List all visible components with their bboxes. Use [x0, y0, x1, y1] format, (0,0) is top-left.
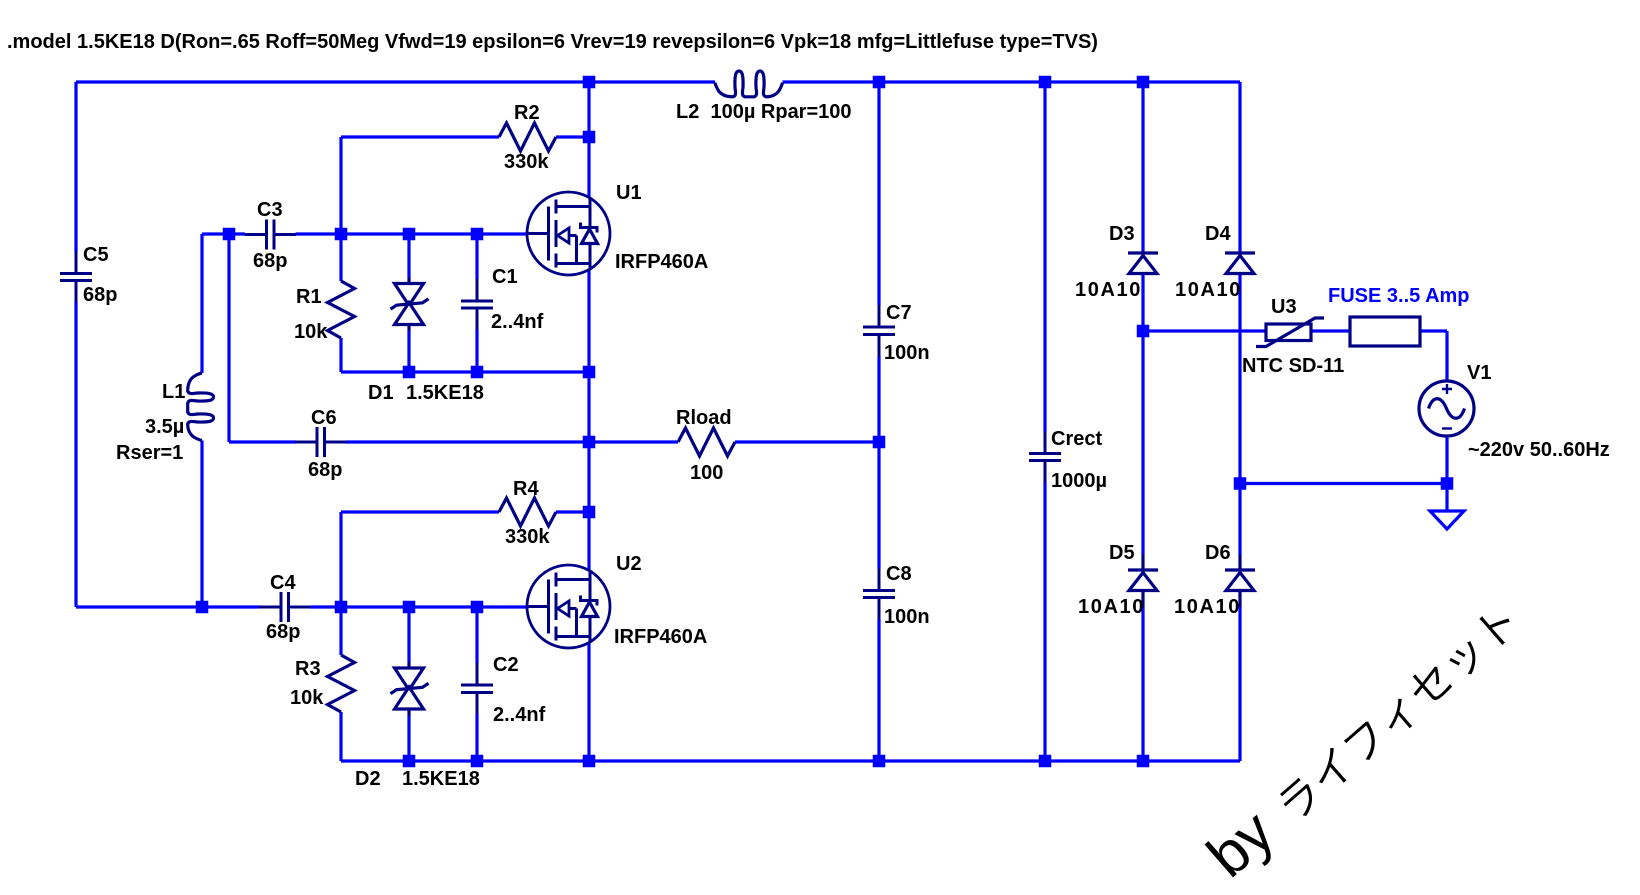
wire R4 left drop [339, 512, 342, 607]
node gate row/R1 [335, 228, 348, 241]
svg-text:L2 100µ Rpar=100: L2 100µ Rpar=100 [676, 101, 852, 123]
svg-text:U3: U3 [1271, 296, 1297, 318]
wire C1 top lead [475, 234, 478, 280]
capacitor Crect [1029, 432, 1061, 483]
svg-text:R2: R2 [514, 102, 540, 124]
svg-text:100n: 100n [884, 606, 930, 628]
node Rload/C7-C8 [873, 436, 886, 449]
wire D5 column lower [1141, 607, 1144, 761]
svg-text:FUSE 3..5 Amp: FUSE 3..5 Amp [1328, 285, 1470, 307]
wire C7-C8 column middle [877, 356, 880, 569]
wire V1 bottom lead [1445, 436, 1448, 511]
node top/C7 [873, 76, 886, 89]
svg-text:Rser=1: Rser=1 [116, 442, 183, 464]
svg-text:10A10: 10A10 [1075, 279, 1142, 301]
node R4/drain U2 [583, 506, 596, 519]
svg-text:10k: 10k [294, 321, 328, 343]
wire V1 top lead [1445, 331, 1448, 381]
svg-text:10k: 10k [290, 687, 324, 709]
wire C8 column lower [877, 619, 880, 761]
wire R2 row right [556, 135, 589, 138]
svg-text:10A10: 10A10 [1174, 596, 1241, 618]
node bottom/D2 [403, 755, 416, 768]
svg-text:C4: C4 [270, 572, 296, 594]
svg-text:D3: D3 [1109, 223, 1135, 245]
node AC/D3-D5 [1137, 325, 1150, 338]
wire Rload row left [589, 440, 678, 443]
capacitor C6 [295, 427, 347, 457]
node upper bottom/source U1 [583, 366, 596, 379]
wire D2 bottom lead [407, 716, 410, 762]
svg-text:IRFP460A: IRFP460A [614, 626, 707, 648]
svg-text:C1: C1 [492, 266, 518, 288]
svg-text:R4: R4 [513, 478, 539, 500]
wire lower gate row right of C4 [310, 605, 527, 608]
wire C6 branch vertical [227, 234, 230, 442]
wire C6 row left of C6 [229, 440, 296, 443]
svg-text:D6: D6 [1205, 542, 1231, 564]
diode D6 [1225, 555, 1255, 608]
node lower gate/D2 [403, 601, 416, 614]
wire center rail U1-U2 [587, 270, 590, 570]
svg-text:C7: C7 [886, 302, 912, 324]
node gate row/C6 branch [223, 228, 236, 241]
svg-text:R1: R1 [296, 286, 322, 308]
ground [1430, 511, 1464, 529]
svg-text:Rload: Rload [676, 407, 732, 429]
diode D5 [1128, 555, 1158, 608]
node bottom/C2 [471, 755, 484, 768]
node gate row/D1 [403, 228, 416, 241]
node lower gate/L1 [196, 601, 209, 614]
wire D4 column upper [1238, 82, 1241, 253]
svg-text:L1: L1 [162, 381, 185, 403]
TVS diode D2 [391, 662, 429, 716]
MOSFET U1 [527, 192, 610, 275]
svg-text:NTC SD-11: NTC SD-11 [1242, 355, 1344, 377]
wire top rail left of L2 [76, 80, 715, 83]
svg-text:10A10: 10A10 [1078, 596, 1145, 618]
wire left rail lower (below C5) [74, 302, 77, 607]
thermistor U3 [1256, 318, 1324, 347]
wire upper gate row right of C3 [296, 232, 528, 235]
watermark by-line [1195, 589, 1527, 890]
wire center rail above U1 [587, 82, 590, 197]
MOSFET U2 [527, 565, 610, 648]
node R2/drain U1 [583, 131, 596, 144]
svg-text:1.5KE18: 1.5KE18 [406, 382, 484, 404]
wire upper cell bottom row [341, 370, 589, 373]
wire R3 top lead [339, 607, 342, 655]
capacitor C3 [245, 220, 297, 250]
svg-text:2..4nf: 2..4nf [491, 311, 544, 333]
svg-text:D5: D5 [1109, 542, 1135, 564]
svg-text:68p: 68p [308, 459, 342, 481]
svg-text:10A10: 10A10 [1175, 279, 1242, 301]
node upper bottom/D1 [403, 366, 416, 379]
TVS diode D1 [391, 277, 429, 331]
wire Crect column lower [1043, 482, 1046, 761]
node lower gate/R3 [335, 601, 348, 614]
wire R2 left drop [339, 137, 342, 234]
capacitor C8 [863, 569, 895, 620]
node bottom/Crect [1039, 755, 1052, 768]
node top/Crect [1039, 76, 1052, 89]
svg-text:C6: C6 [311, 407, 337, 429]
wire R4 row right [556, 510, 589, 513]
wire Crect column upper [1043, 82, 1046, 432]
wire C6 row right of C6 [346, 440, 589, 443]
capacitor C5 [60, 252, 92, 303]
wire lower gate row left of C4 [76, 605, 260, 608]
node center/Rload [583, 436, 596, 449]
svg-text:IRFP460A: IRFP460A [615, 251, 708, 273]
node lower gate/C2 [471, 601, 484, 614]
svg-text:V1: V1 [1467, 362, 1491, 384]
svg-text:C3: C3 [257, 199, 283, 221]
wire R2 row left [341, 135, 499, 138]
svg-text:C2: C2 [493, 654, 519, 676]
capacitor C7 [863, 305, 895, 357]
svg-text:~220v 50..60Hz: ~220v 50..60Hz [1468, 439, 1610, 461]
svg-text:C8: C8 [886, 563, 912, 585]
wire AC row to NTC [1143, 329, 1266, 332]
wire C1 bottom lead [475, 330, 478, 373]
svg-text:1.5KE18: 1.5KE18 [402, 768, 480, 790]
wire D2 top lead [407, 607, 410, 662]
AC source V1 [1419, 381, 1474, 436]
capacitor C4 [259, 592, 311, 622]
wire D4-D6 column middle [1238, 274, 1241, 555]
wire L1 bottom lead [200, 441, 203, 608]
wire Rload row right [735, 440, 879, 443]
svg-text:C5: C5 [83, 244, 109, 266]
svg-text:68p: 68p [253, 250, 287, 272]
wire D6 column lower [1238, 607, 1241, 761]
svg-text:U2: U2 [616, 553, 642, 575]
node return/D4-D6 [1234, 477, 1247, 490]
node top/D3 [1137, 76, 1150, 89]
svg-text:U1: U1 [616, 182, 642, 204]
wire FUSE to V1 corner [1420, 329, 1447, 332]
wire V1 return row [1240, 482, 1447, 485]
wire R4 row left [341, 510, 499, 513]
node bottom/D5 [1137, 755, 1150, 768]
resistor R3 [328, 655, 355, 712]
node gate row/C1 [471, 228, 484, 241]
svg-text:2..4nf: 2..4nf [493, 704, 546, 726]
wire R1 bottom lead [339, 338, 342, 372]
node bottom/C8 [873, 755, 886, 768]
node upper bottom/C1 [471, 366, 484, 379]
svg-text:100: 100 [690, 462, 723, 484]
svg-text:3.5µ: 3.5µ [145, 416, 184, 438]
svg-text:D2: D2 [355, 768, 381, 790]
node top/center [583, 76, 596, 89]
wire D3-D5 column middle [1141, 274, 1144, 555]
svg-text:D1: D1 [368, 382, 394, 404]
svg-text:330k: 330k [505, 526, 550, 548]
wire R1 top lead [339, 234, 342, 281]
resistor R1 [328, 281, 355, 338]
wire R3 bottom lead [339, 712, 342, 761]
svg-text:.model 1.5KE18 D(Ron=.65 Roff=: .model 1.5KE18 D(Ron=.65 Roff=50Meg Vfwd… [7, 31, 1098, 53]
svg-text:100n: 100n [884, 342, 930, 364]
svg-text:68p: 68p [83, 284, 117, 306]
wire C2 top lead [475, 607, 478, 664]
svg-text:330k: 330k [504, 151, 549, 173]
wire left rail upper (above C5) [74, 82, 77, 252]
svg-text:R3: R3 [295, 658, 321, 680]
wire C2 bottom lead [475, 714, 478, 761]
node bottom/center [583, 755, 596, 768]
wire top rail right of L2 [783, 80, 1241, 83]
wire center rail below U2 [587, 643, 590, 761]
wire L1 top lead [200, 234, 203, 373]
capacitor C2 [461, 663, 493, 715]
inductor L1 [188, 373, 214, 441]
svg-text:1000µ: 1000µ [1051, 470, 1107, 492]
wire D1 top lead [407, 234, 410, 277]
wire D3 column upper [1141, 82, 1144, 253]
wire D1 bottom lead [407, 331, 410, 372]
inductor L2 [715, 71, 783, 97]
wire upper gate row left of C3 [202, 232, 245, 235]
svg-text:68p: 68p [266, 621, 300, 643]
wire bottom rail [341, 759, 1240, 762]
node return/V1 [1441, 477, 1454, 490]
wire NTC to FUSE [1311, 329, 1350, 332]
wire C7 column upper [877, 82, 880, 306]
fuse [1350, 317, 1420, 346]
svg-text:D4: D4 [1205, 223, 1231, 245]
diode D3 [1128, 253, 1158, 274]
diode D4 [1225, 253, 1255, 274]
resistor R4 [499, 498, 556, 526]
capacitor C1 [461, 279, 493, 330]
resistor Rload [678, 428, 735, 456]
svg-text:Crect: Crect [1051, 428, 1102, 450]
resistor R2 [499, 123, 556, 151]
